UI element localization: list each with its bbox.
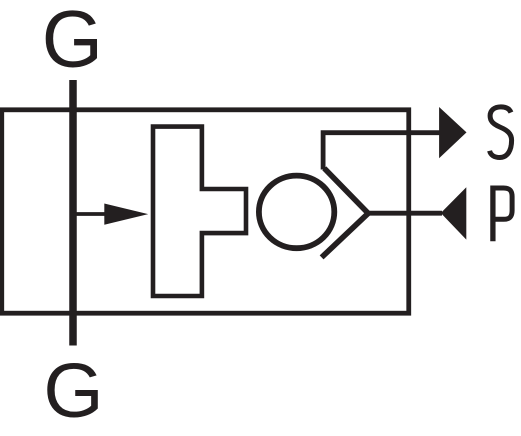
label S [490,107,512,158]
valve seat upper arm [324,168,368,213]
valve body box [2,110,409,313]
wire S path [323,133,439,170]
check valve ball (circle) [259,176,334,249]
label P bowl [491,188,513,219]
svg-text:G: G [42,0,103,84]
label P stem [490,186,495,242]
spool T-shape [153,127,246,296]
valve seat lower arm [322,213,369,257]
S port arrow [439,107,466,158]
P port arrow [441,187,467,239]
wire P path [368,211,442,216]
G line (vertical pilot line) [69,80,77,346]
pilot arrowhead [104,204,148,225]
svg-text:G: G [43,348,103,434]
pilot arrow wire [73,212,106,216]
